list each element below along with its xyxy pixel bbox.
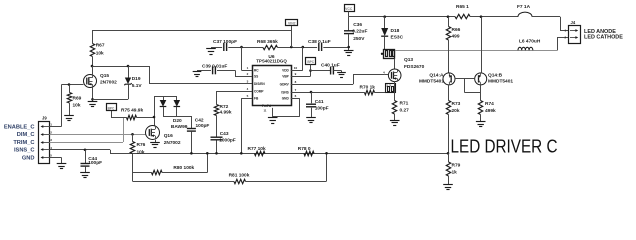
svg-text:Q15: Q15 (100, 73, 109, 79)
svg-text:R70 1k: R70 1k (360, 85, 376, 91)
svg-text:0.27: 0.27 (400, 108, 410, 114)
svg-text:TPS40211DGQ: TPS40211DGQ (256, 59, 287, 64)
svg-text:D20: D20 (173, 118, 182, 124)
svg-text:F7 1A: F7 1A (517, 4, 531, 10)
svg-text:PwPd: PwPd (262, 104, 271, 108)
svg-text:R66: R66 (452, 27, 461, 33)
svg-text:MMDT5401: MMDT5401 (488, 79, 513, 85)
svg-text:100pF: 100pF (196, 123, 210, 129)
svg-text:C41: C41 (315, 99, 324, 105)
svg-text:C36: C36 (353, 22, 362, 28)
svg-text:C42: C42 (195, 118, 204, 124)
svg-text:TRIM_C: TRIM_C (13, 140, 34, 146)
svg-text:GDRV: GDRV (280, 83, 290, 87)
svg-text:R80 100k: R80 100k (173, 165, 194, 171)
svg-text:LED CATHODE: LED CATHODE (584, 35, 623, 41)
svg-text:VIN2: VIN2 (288, 22, 296, 26)
svg-text:R68 365k: R68 365k (257, 39, 278, 45)
svg-text:5.1V: 5.1V (132, 83, 143, 89)
svg-text:COMP: COMP (254, 89, 264, 93)
svg-text:R77 10k: R77 10k (248, 146, 266, 152)
svg-text:J4: J4 (571, 20, 576, 25)
svg-text:11: 11 (264, 109, 267, 113)
svg-text:10k: 10k (96, 51, 104, 57)
svg-text:20k: 20k (452, 108, 460, 114)
svg-text:Q14:A: Q14:A (429, 73, 444, 79)
svg-text:C39 0.01uF: C39 0.01uF (202, 63, 227, 69)
svg-text:R71: R71 (400, 101, 409, 107)
svg-text:2N7002: 2N7002 (164, 140, 181, 146)
svg-text:250V: 250V (353, 36, 365, 42)
svg-text:RC: RC (254, 69, 259, 73)
svg-text:VDD: VDD (282, 69, 289, 73)
svg-text:R81 100k: R81 100k (229, 173, 250, 179)
svg-text:BAW99: BAW99 (171, 124, 188, 130)
svg-text:0.22uF: 0.22uF (352, 29, 367, 35)
svg-text:VCC: VCC (345, 7, 353, 11)
svg-text:ISNS_C: ISNS_C (14, 148, 35, 154)
svg-text:ENABLE_C: ENABLE_C (4, 124, 35, 130)
svg-text:GND: GND (282, 97, 290, 101)
svg-text:VBP: VBP (282, 75, 289, 79)
svg-text:C38 0.1uF: C38 0.1uF (308, 39, 331, 45)
svg-text:R73: R73 (452, 101, 461, 107)
svg-text:C40 1uF: C40 1uF (321, 63, 340, 69)
svg-text:R75 49.9k: R75 49.9k (121, 108, 143, 114)
svg-text:499: 499 (452, 34, 460, 40)
svg-text:J9: J9 (42, 116, 47, 121)
svg-text:R65 1: R65 1 (456, 4, 469, 10)
svg-text:Q16: Q16 (164, 133, 173, 139)
svg-text:C37 100pF: C37 100pF (213, 39, 237, 45)
svg-text:FB: FB (254, 97, 259, 101)
svg-text:BPC: BPC (307, 60, 314, 64)
svg-text:R72: R72 (220, 104, 229, 110)
svg-text:499k: 499k (485, 108, 496, 114)
svg-text:DIM_C: DIM_C (17, 132, 35, 138)
svg-text:C43: C43 (220, 131, 229, 137)
svg-text:R79: R79 (452, 163, 461, 169)
svg-text:FDS2670: FDS2670 (404, 64, 425, 70)
svg-text:D18: D18 (391, 28, 400, 34)
svg-text:L6 470uH: L6 470uH (519, 38, 541, 44)
svg-text:R67: R67 (96, 42, 105, 48)
svg-text:R76: R76 (137, 142, 146, 148)
svg-text:1000pF: 1000pF (219, 137, 236, 143)
svg-text:SS: SS (254, 75, 258, 79)
svg-text:BPC: BPC (108, 106, 115, 110)
svg-text:100pF: 100pF (88, 160, 102, 166)
svg-text:100pF: 100pF (315, 106, 329, 112)
svg-text:Q14:B: Q14:B (488, 73, 503, 79)
svg-text:ES3C: ES3C (391, 35, 404, 41)
svg-text:10k: 10k (73, 103, 81, 109)
svg-text:ISNS: ISNS (281, 90, 288, 94)
svg-text:4.99k: 4.99k (220, 110, 232, 116)
svg-text:R78 0: R78 0 (298, 146, 311, 152)
svg-text:MMDT5401: MMDT5401 (419, 79, 444, 85)
svg-text:DIS/EN: DIS/EN (254, 82, 265, 86)
svg-text:2N7002: 2N7002 (100, 80, 117, 86)
svg-text:Q13: Q13 (404, 57, 413, 63)
svg-text:1k: 1k (452, 170, 458, 176)
svg-text:LED DRIVER C: LED DRIVER C (451, 137, 558, 157)
svg-text:10k: 10k (137, 150, 145, 156)
svg-text:D19: D19 (132, 76, 141, 82)
svg-text:GND: GND (22, 155, 35, 161)
svg-text:10: 10 (294, 66, 298, 70)
svg-text:R74: R74 (485, 101, 494, 107)
svg-text:R69: R69 (73, 96, 82, 102)
